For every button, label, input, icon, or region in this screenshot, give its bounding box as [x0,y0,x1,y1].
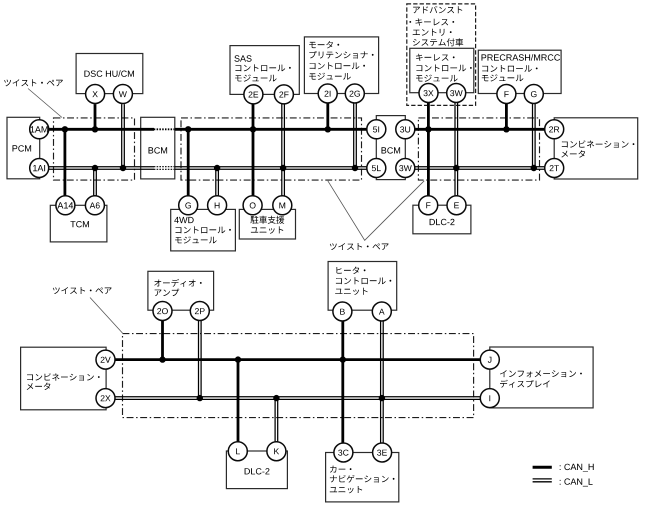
CAN_L dotted segment inside BCM [154,166,175,168]
PRECRASH/MRCC control module box [478,50,561,93]
connector G 4WD [179,196,198,215]
wire L to CAN_H [237,360,240,442]
connector 3W BCM [396,159,415,178]
connector F PRECRASH [497,85,516,104]
connector A [372,302,391,321]
TCM box [50,205,107,242]
legend CAN_L sample line [533,479,552,482]
BCM label 2 [382,147,401,153]
connector 2E [244,85,263,104]
connector 2R [545,120,564,139]
connector 2X [96,389,115,408]
connector F DLC-2 [419,196,438,215]
connector K [267,442,286,461]
wire W to CAN_L [122,104,125,168]
label twisted pair (top middle) leader lines [328,181,424,241]
CAN_L bus (top) [49,167,155,170]
wire X to CAN_H [94,104,97,129]
connector 5I [367,120,386,139]
connector 2V [96,350,115,369]
information display box [490,347,593,408]
SAS control module box [230,46,299,95]
keyless control module box [410,48,474,92]
connector X [86,85,105,104]
heater control unit box [328,262,397,311]
wire K to CAN_L [275,398,278,442]
connector G PRECRASH [524,85,543,104]
connector 3C [334,443,353,462]
CAN_H bus (top) [49,128,155,131]
twisted-pair dash-dot region 4 (bottom bus) [123,334,474,418]
connector E [447,196,466,215]
junction dots CAN_H bottom [159,356,165,362]
CAN_H bus (bottom) [115,358,480,361]
DLC-2 box (bottom) [226,451,287,489]
parking assist unit box [239,209,295,239]
advanced keyless entry system dashed box [407,4,476,106]
connector 1AI [30,159,49,178]
wire 2O to CAN_H [161,320,164,359]
wire 2E to O through CAN_H [252,104,255,196]
DSC HU/CM box [76,54,143,94]
connector A6 [85,196,104,215]
connector 3U [396,120,415,139]
connector W [113,85,132,104]
connector 3W keyless [447,84,466,103]
BCM box 2 [376,116,405,180]
twisted-pair dash-dot region 1 (PCM to BCM) [54,118,135,180]
motor pretensioner control module box [304,37,378,94]
connector 2O [153,302,172,321]
wire A to 3E through CAN_L [381,321,384,444]
twisted-pair dash-dot region 2 (BCM to BCM) [181,118,362,180]
wire G 4WD to CAN_H [187,129,190,196]
BCM box 1 [141,117,175,179]
wire 2I to CAN_H [326,103,329,129]
connector L [228,442,247,461]
connector 2G [345,84,364,103]
connector 2F [274,85,293,104]
wire 2F to M through CAN_L [282,104,285,196]
CAN_H dotted segment inside BCM [154,128,175,130]
wire A14 to CAN_H [64,129,67,196]
connector A14 [56,196,75,215]
wire F PRECRASH to CAN_H [505,104,508,129]
wire G PRECRASH to CAN_L [533,104,536,168]
audio amp box [148,271,214,310]
connector O [243,196,262,215]
wire H to CAN_L [216,168,219,196]
junction dots CAN_L bottom [197,395,203,401]
wire 2G to CAN_L [354,103,357,168]
connector 2T [545,159,564,178]
DLC-2 box (top) [413,205,471,234]
label twisted pair (top left) leader line [28,89,62,118]
legend CAN_H sample line [533,466,552,469]
CAN_L bus (bottom) [115,397,480,400]
label twisted pair (bottom) leader line [90,298,123,334]
combination meter box (bottom) [21,347,107,410]
connector M [273,196,292,215]
twisted-pair dash-dot region 3 (BCM to combination meter) [418,118,539,180]
wire 3X to F through CAN_H [427,103,430,196]
wire A6 to CAN_L [94,168,97,196]
combination meter box (top) [554,118,638,179]
connector 1AM [30,120,49,139]
connector J [480,350,499,369]
wire 3W to E through CAN_L [455,103,458,196]
connector 3E [373,443,392,462]
connector H [208,196,227,215]
connector B [333,302,352,321]
connector 5L [367,159,386,178]
connector 2P [190,302,209,321]
connector 2I [318,84,337,103]
junction dots CAN_H top [62,126,68,132]
car navigation unit box [326,453,399,502]
connector 3X [419,84,438,103]
BCM label 1 [149,147,168,153]
connector I [480,389,499,408]
PCM box [7,117,40,179]
wire B to 3C through CAN_H [341,321,344,444]
junction dots CAN_L top [92,165,98,171]
4WD control module box [171,209,236,251]
wire 2P to CAN_L [199,321,202,398]
